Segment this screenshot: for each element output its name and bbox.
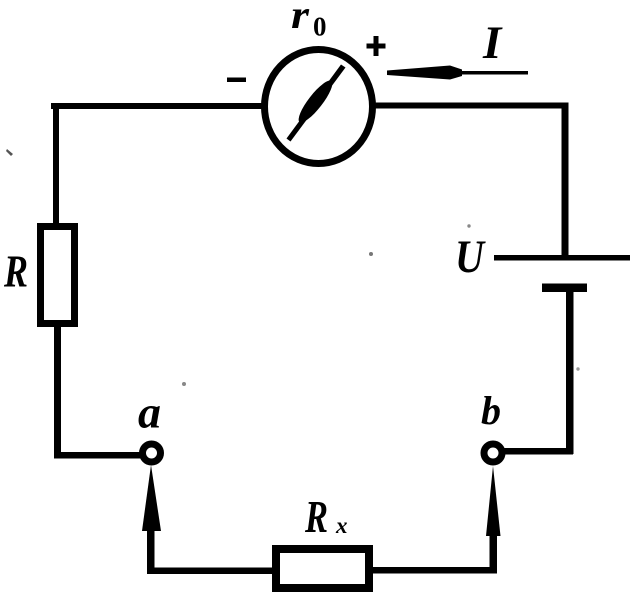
svg-text:R: R bbox=[304, 492, 328, 542]
speck bbox=[182, 382, 186, 386]
svg-text:0: 0 bbox=[313, 12, 327, 42]
wire node b to right corner bbox=[504, 448, 573, 455]
node a bbox=[143, 444, 161, 462]
wire left vertical upper bbox=[53, 103, 59, 226]
svg-text:r: r bbox=[291, 0, 309, 37]
svg-text:R: R bbox=[3, 246, 28, 297]
speck bbox=[467, 224, 470, 227]
polarity minus bbox=[227, 78, 246, 83]
wire bottom-right horizontal bbox=[373, 567, 497, 574]
wire left vertical lower bbox=[54, 324, 61, 458]
wire right vertical upper bbox=[562, 103, 569, 257]
wire top-right horizontal bbox=[375, 103, 568, 109]
svg-text:a: a bbox=[138, 387, 161, 438]
speck bbox=[6, 149, 13, 156]
polarity plus bbox=[367, 36, 386, 56]
wire top-left horizontal bbox=[51, 103, 265, 109]
resistor R bbox=[41, 227, 75, 324]
svg-text:b: b bbox=[481, 388, 501, 433]
ammeter M (r0) circle bbox=[265, 50, 373, 164]
battery U positive plate bbox=[494, 255, 630, 261]
resistor Rx bbox=[276, 549, 369, 588]
ammeter needle bbox=[287, 65, 346, 142]
speck bbox=[576, 367, 579, 370]
wire right vertical lower bbox=[566, 288, 574, 454]
svg-text:x: x bbox=[335, 513, 348, 538]
speck bbox=[369, 252, 373, 256]
svg-text:U: U bbox=[455, 231, 486, 283]
wire bottom-left horizontal from arrow a bbox=[147, 568, 272, 575]
battery U negative plate bbox=[542, 284, 587, 293]
node b bbox=[484, 444, 502, 462]
wire bottom-left horizontal to node a bbox=[54, 452, 141, 459]
probe arrow at node b bbox=[486, 466, 501, 572]
probe arrow at node a bbox=[142, 465, 161, 574]
current arrow I bbox=[387, 66, 528, 80]
svg-text:I: I bbox=[482, 17, 503, 69]
